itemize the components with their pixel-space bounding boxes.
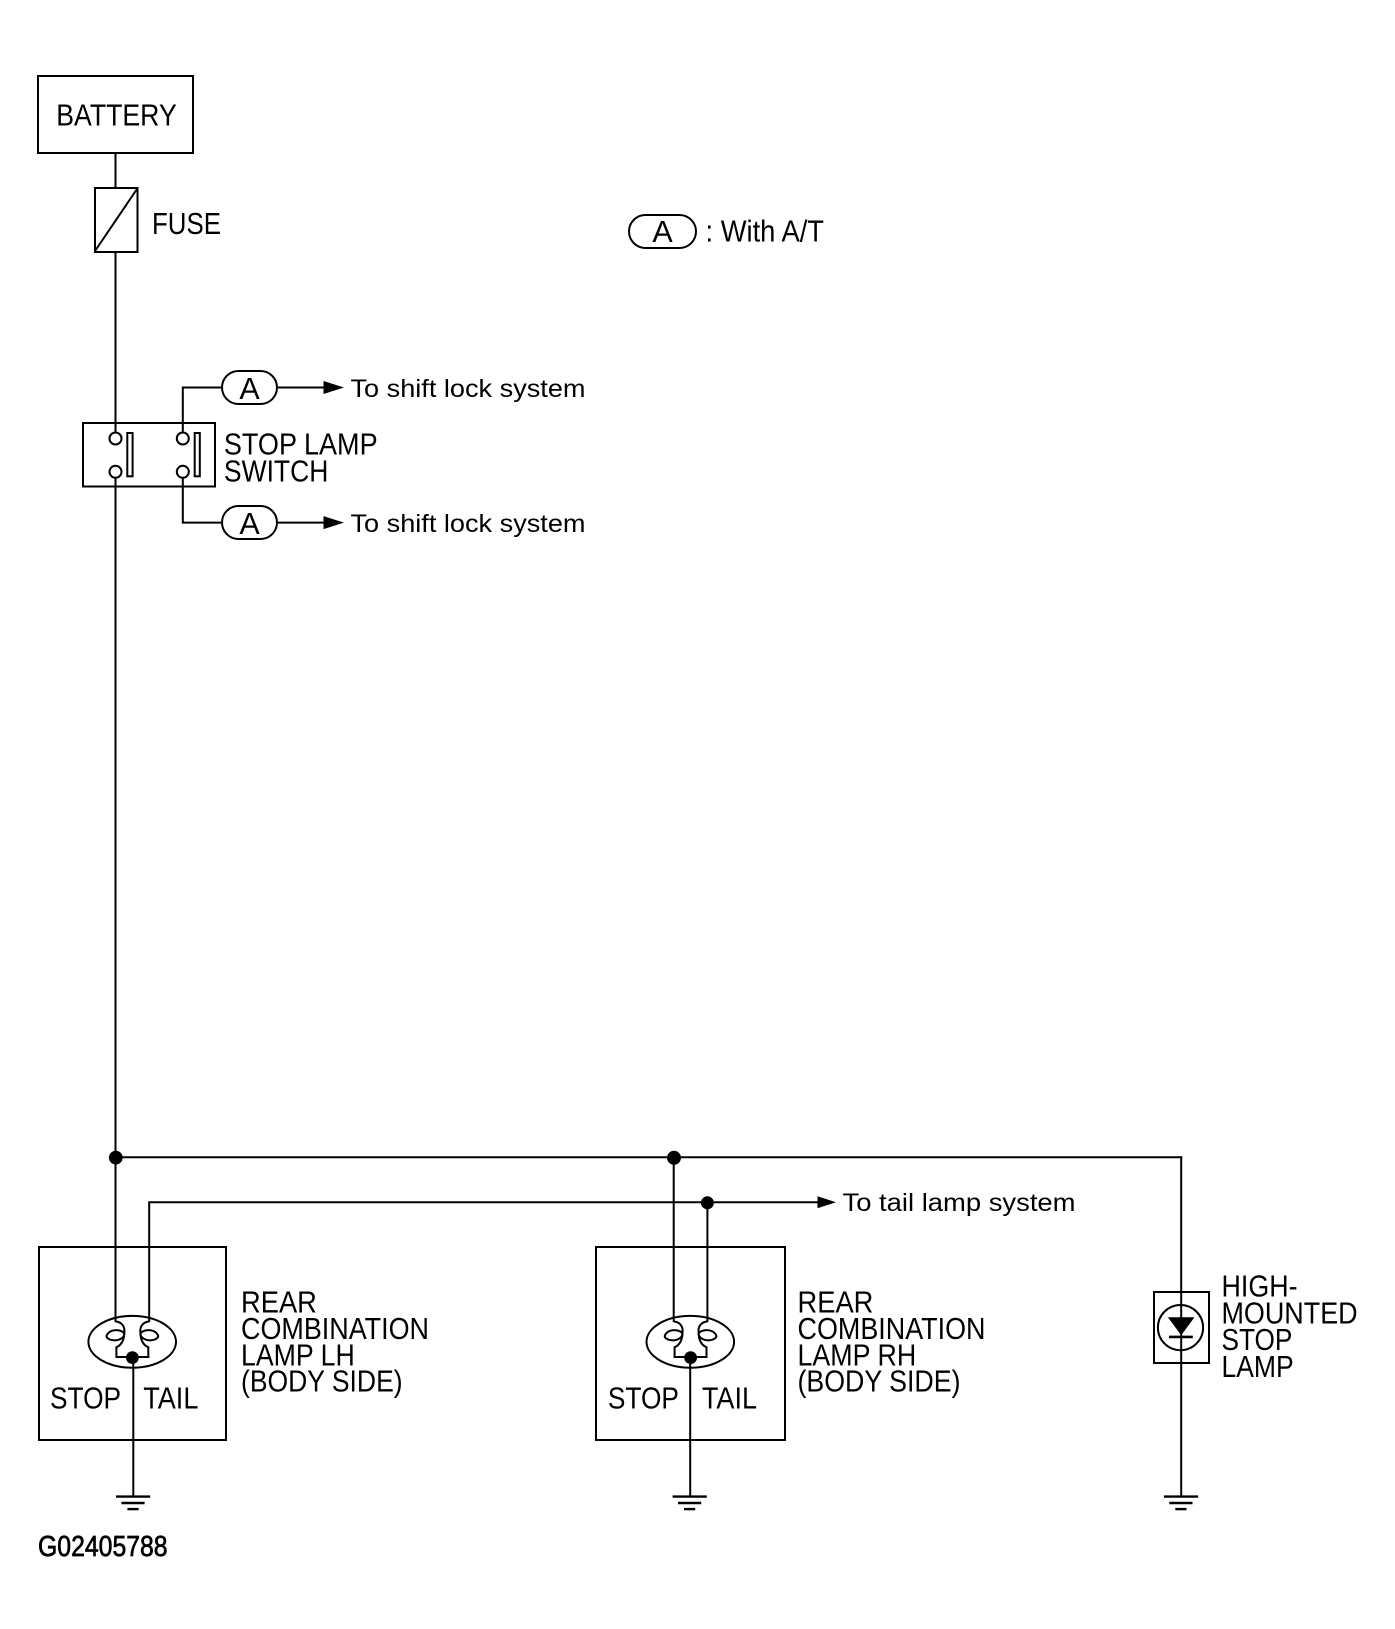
svg-text:To shift lock system: To shift lock system [351, 510, 586, 538]
fuse [95, 188, 221, 252]
wire: connector A (upper) to shift lock arrow [278, 387, 324, 389]
ground: lamp LH [116, 1497, 150, 1510]
wire: switch lower right pin to connector A (lower) [183, 470, 221, 523]
bulb RH: stop filament hook [674, 1322, 683, 1358]
ground: high-mounted stop lamp [1164, 1497, 1198, 1510]
svg-text:: With A/T: : With A/T [706, 215, 825, 249]
battery [38, 76, 193, 153]
svg-text:TAIL: TAIL [702, 1381, 757, 1415]
wire: tail branch drop to rear combination lamp RH tail filament [706, 1203, 708, 1322]
svg-text:A: A [652, 215, 673, 249]
wire: connector A (lower) to shift lock arrow [278, 522, 324, 524]
bulb LH: stop filament eye [107, 1330, 125, 1340]
svg-text:STOP: STOP [608, 1381, 679, 1415]
arrow: to tail lamp system [818, 1196, 837, 1208]
svg-text:BATTERY: BATTERY [56, 98, 177, 132]
bulb RH: envelope [647, 1316, 735, 1368]
svg-text:To tail lamp system: To tail lamp system [843, 1189, 1076, 1217]
arrow: to shift lock system (upper) [324, 381, 345, 394]
node: junction of tail branch and RH tail drop [701, 1196, 714, 1209]
wire: bus drop to rear combination lamp RH stop filament [673, 1157, 675, 1322]
wire: fuse to stop lamp switch pin [115, 252, 117, 438]
svg-text:A: A [239, 507, 260, 541]
node: bulb LH common point [126, 1351, 139, 1364]
arrow: to shift lock system (lower) [324, 516, 345, 529]
bulb LH: stop filament hook [116, 1322, 125, 1358]
connector A (upper, to shift lock) [222, 371, 277, 406]
node: junction of main feed and bus [109, 1151, 123, 1165]
wire: battery to fuse [115, 153, 117, 188]
wire: main feed from switch down to rear combination lamp LH stop filament [115, 470, 117, 1322]
svg-text:(BODY SIDE): (BODY SIDE) [798, 1365, 961, 1399]
wire: switch upper right pin to connector A (upper) [183, 388, 221, 441]
bulb RH: tail filament eye [699, 1330, 717, 1340]
high-mounted stop lamp [1154, 1292, 1209, 1363]
svg-text:To shift lock system: To shift lock system [351, 375, 586, 403]
label: REAR COMBINATION LAMP RH (BODY SIDE) [798, 1286, 986, 1399]
wire: horizontal bus to stop lamps [115, 1156, 1183, 1158]
label: STOP LAMP SWITCH [224, 428, 378, 489]
svg-text:STOP: STOP [50, 1381, 121, 1415]
svg-text:TAIL: TAIL [143, 1381, 198, 1415]
bulb RH: tail filament hook [698, 1322, 707, 1358]
rear combination lamp RH box [596, 1247, 785, 1440]
svg-text:LAMP: LAMP [1222, 1350, 1294, 1384]
svg-text:A: A [239, 372, 260, 406]
legend connector A symbol [629, 215, 696, 249]
node: junction of bus and RH stop drop [667, 1151, 681, 1165]
node: bulb RH common point [684, 1351, 697, 1364]
rear combination lamp LH box [39, 1247, 226, 1440]
svg-text:G02405788: G02405788 [38, 1531, 168, 1563]
wire: bulb RH filament bottom link [674, 1356, 708, 1358]
bulb LH: tail filament eye [140, 1330, 158, 1340]
wire: lamp RH to ground [689, 1356, 691, 1496]
label: HIGH-MOUNTED STOP LAMP [1222, 1269, 1358, 1384]
label: REAR COMBINATION LAMP LH (BODY SIDE) [241, 1286, 429, 1399]
svg-text:(BODY SIDE): (BODY SIDE) [241, 1365, 403, 1399]
wire: bus to high-mounted stop lamp and ground [1180, 1156, 1182, 1495]
svg-text:SWITCH: SWITCH [224, 455, 329, 489]
connector A (lower, to shift lock) [222, 506, 277, 541]
stop lamp switch [83, 423, 215, 487]
wire: lamp LH to ground [132, 1356, 134, 1496]
svg-text:FUSE: FUSE [152, 207, 221, 241]
wire: tail lamp system branch with corner down to lamp LH tail filament [149, 1202, 818, 1322]
ground: lamp RH [673, 1497, 707, 1510]
bulb LH: envelope [88, 1316, 176, 1368]
bulb LH: tail filament hook [140, 1322, 149, 1358]
wire: bulb LH filament bottom link [115, 1356, 149, 1358]
bulb RH: stop filament eye [665, 1330, 683, 1340]
